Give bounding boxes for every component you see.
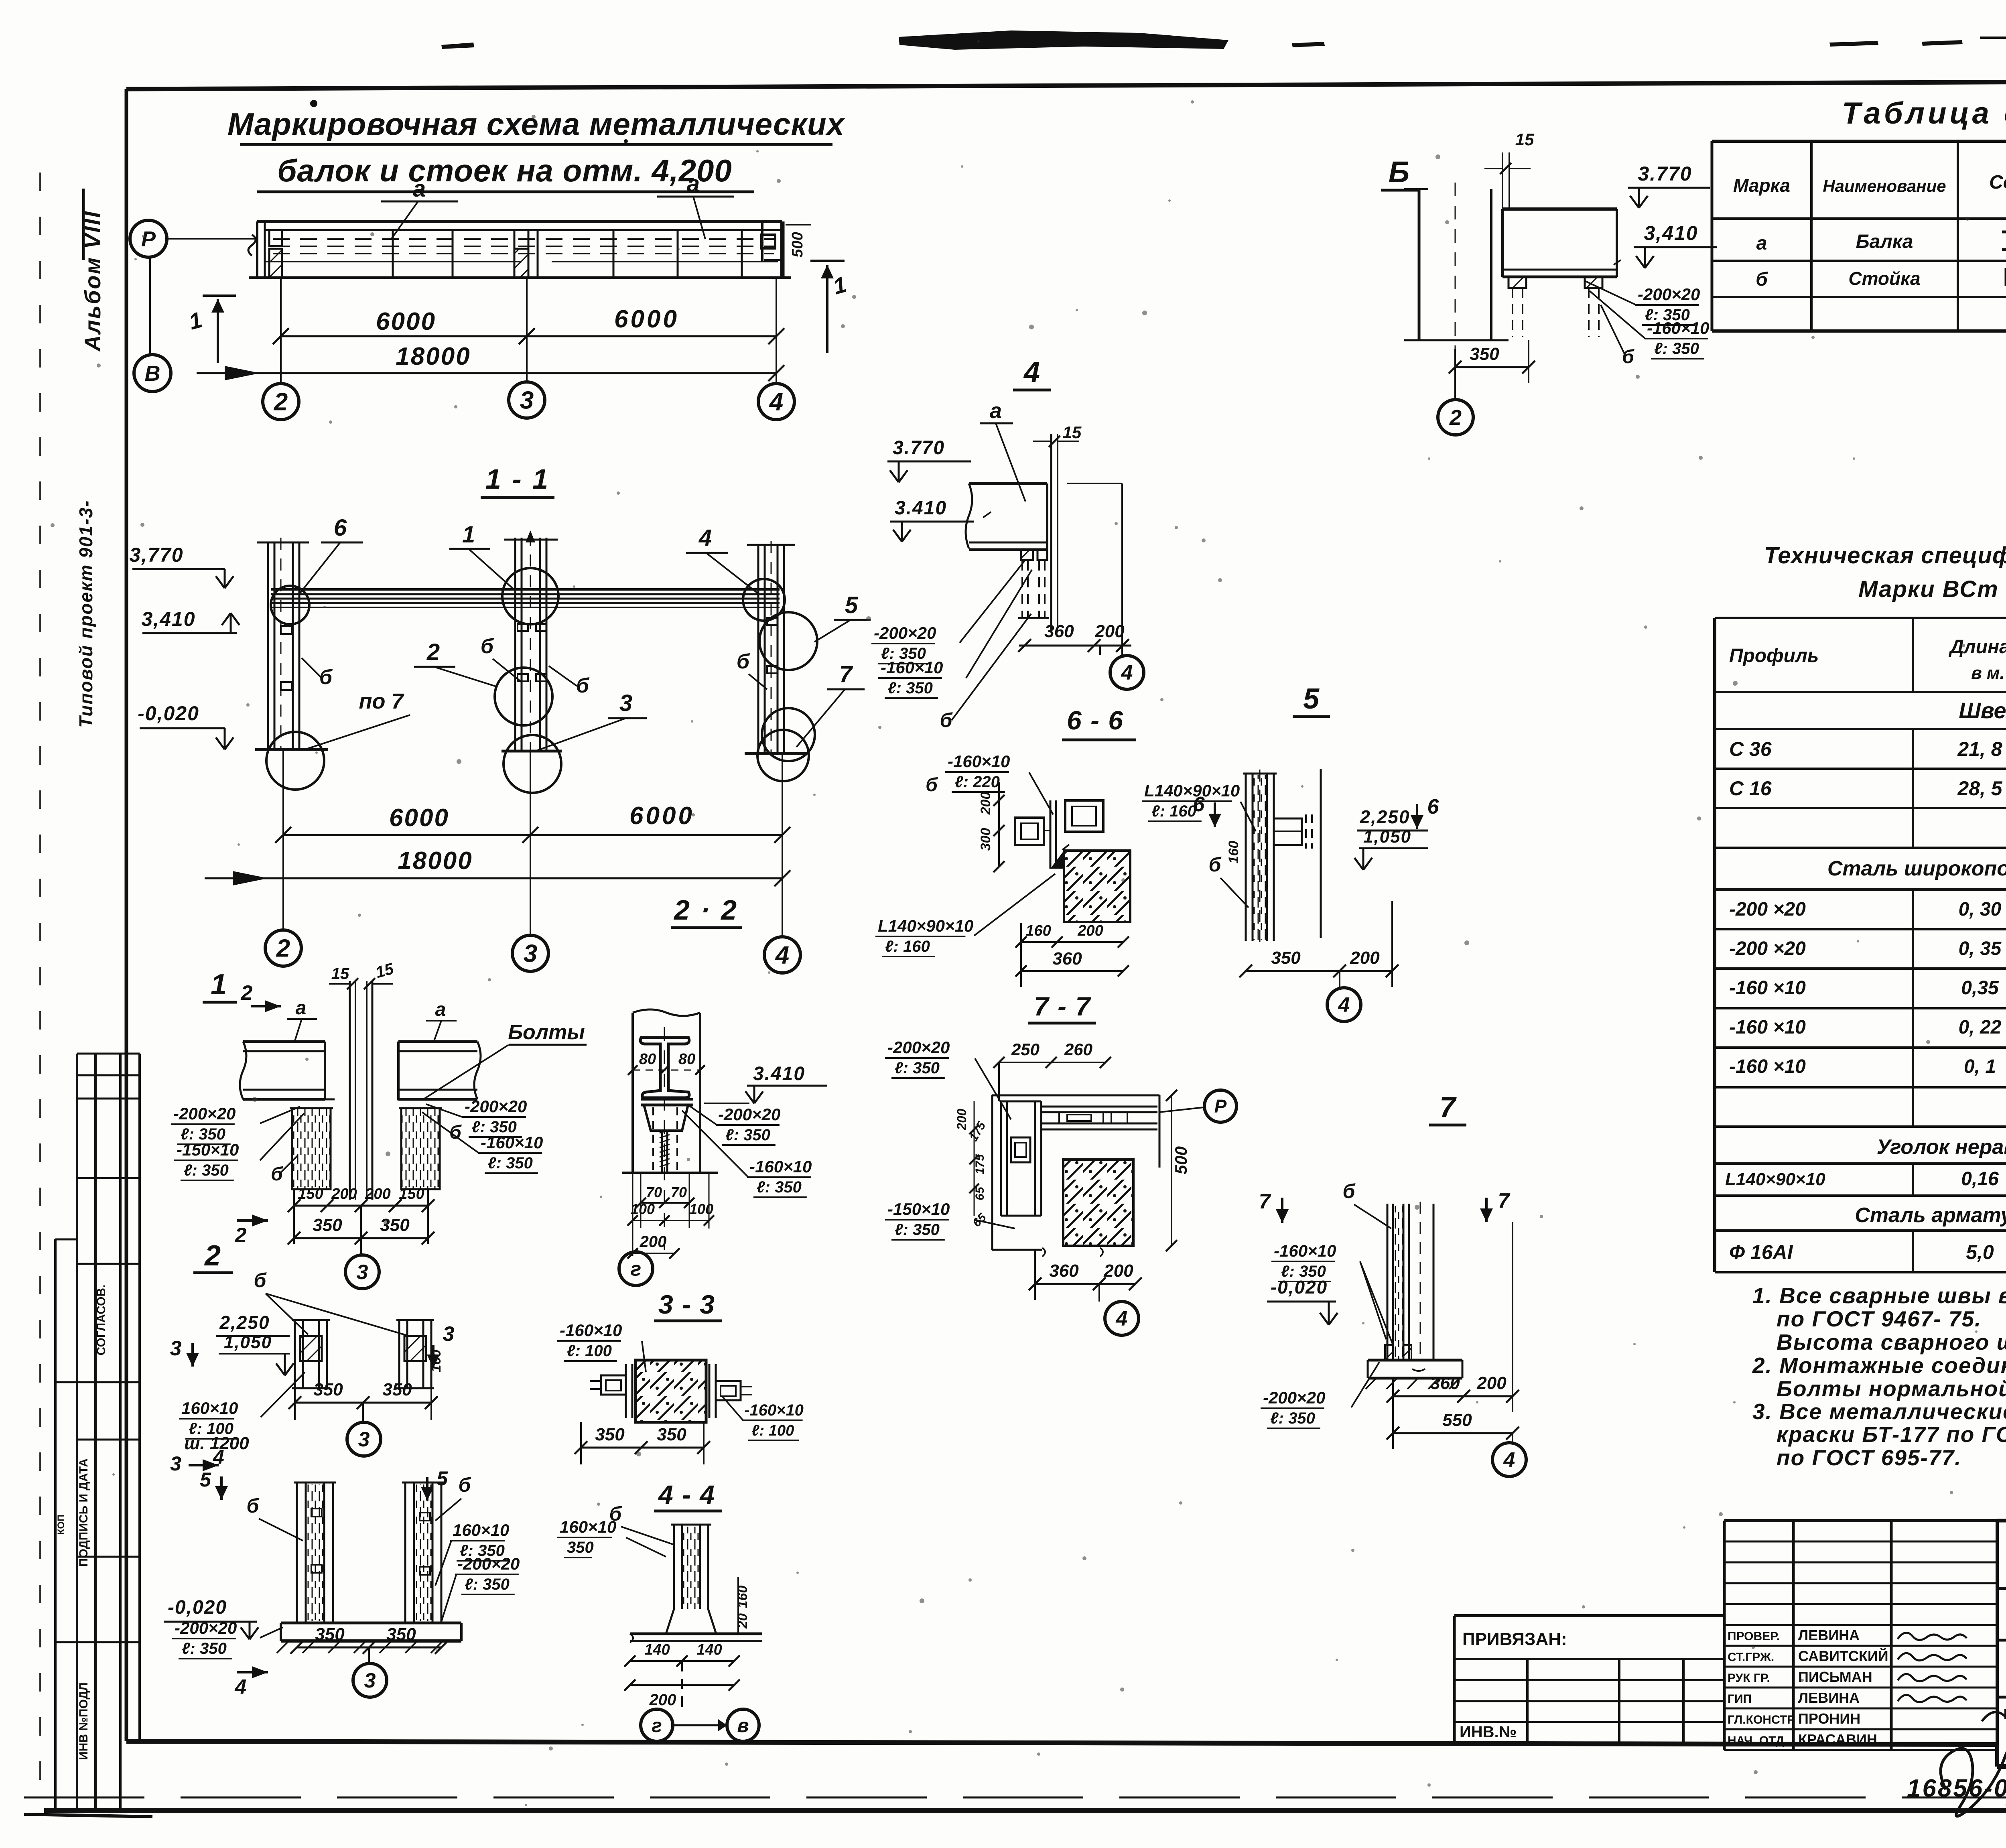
callout circle col4 low	[762, 708, 815, 761]
plan view: beam outline	[257, 220, 782, 223]
detail 5: grid bubble 4	[1339, 971, 1340, 988]
svg-text:ℓ: 350: ℓ: 350	[465, 1576, 510, 1593]
detail 7: base plate	[1368, 1359, 1462, 1362]
svg-text:2,250: 2,250	[1359, 806, 1410, 827]
detail 7-7: dims 250 260 top	[999, 1062, 1105, 1063]
title block: privyazan table	[1454, 1614, 1724, 1617]
svg-text:г: г	[652, 1715, 662, 1736]
plan view: break mark left	[248, 235, 256, 256]
svg-text:ℓ: 160: ℓ: 160	[1151, 802, 1196, 820]
svg-text:15: 15	[1515, 130, 1534, 149]
svg-text:200: 200	[365, 1186, 390, 1202]
svg-text:-160 ×10: -160 ×10	[1729, 1017, 1806, 1038]
detail 6-6: concrete block	[1064, 851, 1130, 922]
svg-text:-200×20: -200×20	[887, 1038, 950, 1057]
dim line 18000 plan	[197, 372, 776, 374]
section 1-1: column on axis 4	[757, 545, 759, 753]
plan view: column 3 hatched	[514, 249, 528, 278]
svg-text:16856-01: 16856-01	[1907, 1775, 2006, 1802]
detail 7-7: callout P	[1204, 1090, 1236, 1122]
svg-text:-200×20: -200×20	[874, 623, 936, 642]
title block: big part frame	[1997, 1519, 2006, 1523]
svg-text:20: 20	[735, 1613, 750, 1629]
svg-text:по ГОСТ 9467- 75.: по ГОСТ 9467- 75.	[1777, 1306, 1982, 1331]
svg-text:-0,020: -0,020	[1271, 1277, 1328, 1298]
title block: signatures	[1898, 1633, 1967, 1640]
svg-text:САВИТСКИЙ: САВИТСКИЙ	[1798, 1647, 1888, 1664]
plan view: column 2 hatched	[269, 249, 282, 278]
dim 6000+6000 section 1-1	[283, 834, 782, 836]
svg-text:-160×10: -160×10	[744, 1401, 804, 1419]
svg-text:1: 1	[211, 969, 227, 1001]
detail 4: gap verticals and 15	[1050, 434, 1052, 632]
svg-text:350: 350	[313, 1215, 342, 1235]
svg-text:160: 160	[428, 1350, 444, 1373]
svg-text:Техническая спецификация стали: Техническая спецификация стали класса С …	[1764, 542, 2006, 569]
svg-text:МАРКИРОВОЧНАЯ СХЕМА МЕТАЛЛИ-: МАРКИРОВОЧНАЯ СХЕМА МЕТАЛЛИ-	[2004, 1706, 2006, 1722]
svg-text:200: 200	[954, 1109, 969, 1131]
svg-text:ℓ: 350: ℓ: 350	[182, 1640, 227, 1657]
svg-text:-200×20: -200×20	[1263, 1388, 1325, 1407]
svg-text:4: 4	[1116, 1307, 1128, 1330]
svg-text:Болты: Болты	[508, 1021, 585, 1044]
detail 7-7: grid bubble 4	[1098, 1284, 1100, 1302]
svg-text:L140×90×10: L140×90×10	[1144, 781, 1240, 800]
callout circle base 4	[757, 730, 809, 781]
title block: names grid	[1723, 1521, 1726, 1750]
section mark 1 right	[826, 265, 828, 353]
svg-text:500: 500	[1172, 1146, 1190, 1174]
detail 1: left beam	[243, 1040, 325, 1043]
svg-text:ПРИВЯЗАН:: ПРИВЯЗАН:	[1462, 1629, 1567, 1649]
svg-text:Наименование: Наименование	[1823, 177, 1946, 195]
svg-text:3: 3	[443, 1322, 455, 1346]
svg-text:3: 3	[170, 1452, 181, 1475]
svg-text:б: б	[1622, 346, 1634, 368]
detail 7-7: channel pair left	[1000, 1101, 1002, 1216]
svg-text:7: 7	[1259, 1190, 1271, 1213]
svg-text:Сталь арматурная стержневая: Сталь арматурная стержневая по ГОСТ 5781…	[1855, 1204, 2006, 1227]
detail 4-4: trapezoid base	[666, 1609, 716, 1634]
svg-text:0,35: 0,35	[1961, 977, 1999, 999]
svg-text:ℓ: 350: ℓ: 350	[1654, 340, 1699, 357]
detail 5: dims 350 200	[1246, 970, 1392, 972]
svg-text:5: 5	[1303, 683, 1320, 715]
svg-text:3: 3	[357, 1261, 368, 1284]
detail 1: left column under beam	[292, 1108, 331, 1189]
callout circle base 2	[266, 732, 324, 790]
svg-text:ℓ: 350: ℓ: 350	[184, 1162, 229, 1179]
svg-text:3,410: 3,410	[1644, 222, 1698, 244]
grid bubble 3 plan	[509, 382, 545, 418]
detail 1: dims 350 350	[294, 1237, 428, 1239]
detail 7: grid bubble 4	[1463, 1396, 1464, 1428]
detail 1: right beam	[398, 1040, 477, 1043]
svg-text:-200×20: -200×20	[457, 1554, 520, 1573]
svg-text:0, 35: 0, 35	[1959, 938, 2002, 959]
svg-text:360: 360	[1044, 621, 1074, 641]
svg-text:ПРОНИН: ПРОНИН	[1798, 1710, 1860, 1727]
plan view: beam dashed lines (beam a)	[273, 238, 774, 240]
spec table frame	[1715, 617, 2006, 619]
svg-text:3.770: 3.770	[1638, 162, 1692, 185]
detail 1: right column under beam	[401, 1108, 440, 1189]
svg-text:6000: 6000	[389, 804, 449, 832]
svg-text:3.410: 3.410	[895, 498, 947, 519]
section 1-1: column on axis 3	[514, 538, 516, 751]
svg-text:4: 4	[213, 1446, 224, 1468]
section mark 1 left	[217, 299, 219, 363]
svg-text:200: 200	[978, 792, 993, 815]
detail 4-4: dims 140 140 200	[630, 1660, 734, 1662]
svg-text:-200×20: -200×20	[1638, 285, 1700, 304]
svg-text:ℓ: 100: ℓ: 100	[567, 1342, 612, 1360]
svg-text:б: б	[449, 1122, 462, 1143]
svg-text:0, 1: 0, 1	[1964, 1056, 1996, 1077]
svg-text:-0,020: -0,020	[168, 1597, 227, 1618]
base detail: base plate	[281, 1622, 461, 1625]
svg-text:в м.: в м.	[1971, 663, 2005, 683]
detail 4: dims 360 200	[1019, 645, 1131, 647]
svg-text:-160×10: -160×10	[749, 1157, 812, 1176]
svg-text:Сталь широкополосная универс: Сталь широкополосная универсальная по ГО…	[1827, 857, 2006, 880]
grid bubble 2 plan	[263, 384, 299, 420]
scanner smudge top	[899, 30, 1228, 50]
svg-text:3: 3	[358, 1428, 370, 1451]
svg-text:Уголок неравнополочный по Г: Уголок неравнополочный по ГОСТ 8510- 72	[1877, 1135, 2006, 1159]
svg-text:250: 250	[1011, 1040, 1040, 1059]
dim 18000 section 1-1	[205, 877, 782, 879]
grid bubble 4 plan	[758, 384, 794, 420]
svg-text:350: 350	[315, 1625, 345, 1644]
svg-text:-0,020: -0,020	[138, 702, 199, 725]
svg-text:2: 2	[1449, 406, 1462, 430]
svg-text:-200 ×20: -200 ×20	[1729, 899, 1806, 920]
svg-text:краски БТ-177 по ГОСТ 5631 -: краски БТ-177 по ГОСТ 5631 - 70* или мас…	[1777, 1422, 2006, 1447]
svg-text:Сечение: Сечение	[1989, 172, 2006, 193]
svg-text:175: 175	[973, 1154, 987, 1174]
svg-text:ℓ: 350: ℓ: 350	[895, 1221, 940, 1239]
svg-text:б: б	[481, 635, 494, 658]
svg-text:-160×10: -160×10	[1647, 319, 1709, 337]
svg-text:350: 350	[382, 1380, 412, 1399]
svg-text:6000: 6000	[629, 802, 694, 830]
svg-text:в: в	[737, 1715, 749, 1736]
detail 6-6: dims 160 200 / 360	[1021, 941, 1123, 943]
svg-text:260: 260	[1064, 1040, 1092, 1059]
detail 1: section mark 2 bottom	[237, 1219, 268, 1222]
svg-text:1 - 1: 1 - 1	[485, 463, 550, 495]
svg-text:160×10: 160×10	[453, 1521, 509, 1539]
svg-text:ℓ: 350: ℓ: 350	[757, 1178, 802, 1196]
svg-text:80: 80	[678, 1051, 695, 1068]
detail 1: axis bubble g	[636, 1251, 637, 1253]
svg-text:7: 7	[1440, 1091, 1457, 1123]
svg-text:ℓ: 160: ℓ: 160	[885, 938, 930, 955]
svg-text:ℓ: 220: ℓ: 220	[955, 773, 1000, 791]
svg-text:18000: 18000	[396, 343, 471, 370]
detail 3-3: right bolt assembly	[709, 1364, 711, 1418]
left margin stamp strip	[76, 1054, 78, 1810]
svg-text:4: 4	[1338, 993, 1350, 1017]
detail 3-3: left bolt assembly	[625, 1364, 627, 1418]
callout circle 5 right	[759, 612, 817, 670]
svg-text:НАЧ. ОТД: НАЧ. ОТД	[1728, 1734, 1784, 1747]
svg-text:-200 ×20: -200 ×20	[1729, 938, 1806, 959]
svg-text:160×10: 160×10	[560, 1517, 616, 1536]
detail 2: columns with splice plates	[294, 1320, 296, 1388]
svg-text:7: 7	[1498, 1189, 1511, 1212]
svg-text:а: а	[687, 171, 700, 197]
svg-text:ПИСЬМАН: ПИСЬМАН	[1798, 1669, 1872, 1685]
svg-text:ИНВ.№: ИНВ.№	[1460, 1723, 1517, 1741]
detail 7-7: outer frame	[991, 1095, 993, 1250]
svg-text:ℓ: 350: ℓ: 350	[888, 679, 933, 697]
detail 4: grid bubble 4	[1099, 646, 1101, 655]
svg-text:ℓ: 350: ℓ: 350	[1270, 1409, 1315, 1427]
svg-text:В: В	[145, 361, 160, 386]
plan view: axis B bubble	[134, 355, 171, 392]
svg-text:3. Все металлические конструк: 3. Все металлические конструкции окрасит…	[1752, 1399, 2006, 1424]
detail 7-7: concrete square	[1063, 1160, 1133, 1246]
svg-text:350: 350	[313, 1380, 343, 1399]
base detail: section mark 4 bottom	[237, 1671, 268, 1673]
svg-text:Швеллеры по ГОСТ 8240-72: Швеллеры по ГОСТ 8240-72	[1959, 698, 2006, 723]
svg-text:ЛЕВИНА: ЛЕВИНА	[1798, 1690, 1860, 1706]
svg-text:550: 550	[1442, 1410, 1472, 1430]
detail 1: I-section part: column faces	[631, 1013, 634, 1173]
svg-text:С 36: С 36	[1729, 738, 1772, 760]
detail 7: dims 360 200	[1393, 1395, 1513, 1397]
svg-text:350: 350	[567, 1539, 594, 1556]
svg-text:160: 160	[1025, 922, 1051, 939]
callout circle col3 top	[502, 568, 558, 624]
svg-text:Болты нормальной точности М: Болты нормальной точности М16.	[1777, 1376, 2006, 1401]
svg-text:1,050: 1,050	[1363, 827, 1411, 847]
callout circle base 3	[504, 735, 561, 793]
svg-text:а: а	[413, 176, 426, 202]
svg-text:ПОДПИСЬ И ДАТА: ПОДПИСЬ И ДАТА	[77, 1458, 90, 1567]
plan view: right end bracket	[761, 221, 763, 261]
svg-text:ℓ: 350: ℓ: 350	[895, 1059, 940, 1077]
detail 7: column	[1387, 1204, 1389, 1360]
svg-text:200: 200	[640, 1233, 667, 1251]
svg-text:СОГЛАСОВ.: СОГЛАСОВ.	[95, 1285, 108, 1356]
detail 1: seat plate	[641, 1098, 693, 1101]
detail B: dim 350	[1455, 366, 1529, 368]
svg-text:СТ.ГРЖ.: СТ.ГРЖ.	[1728, 1651, 1774, 1664]
svg-text:160: 160	[1226, 841, 1241, 864]
plan view: segment ticks	[392, 230, 394, 278]
detail B: grid bubble 2	[1454, 349, 1456, 400]
svg-text:0, 22: 0, 22	[1959, 1017, 2002, 1038]
svg-text:РУК ГР.: РУК ГР.	[1728, 1671, 1770, 1685]
svg-text:-200×20: -200×20	[173, 1104, 236, 1123]
svg-text:Высота сварного шва h= 6мм: Высота сварного шва h= 6мм.	[1777, 1330, 2006, 1355]
svg-text:3,410: 3,410	[141, 608, 195, 630]
detail B: beam box	[1502, 207, 1617, 211]
svg-text:4: 4	[1503, 1448, 1515, 1472]
svg-text:-160×10: -160×10	[481, 1133, 543, 1152]
svg-text:б: б	[926, 774, 938, 796]
svg-text:350: 350	[1271, 948, 1301, 968]
svg-text:3.770: 3.770	[893, 437, 945, 459]
svg-text:-160 ×10: -160 ×10	[1729, 977, 1806, 999]
svg-text:4: 4	[775, 942, 789, 969]
svg-text:5: 5	[845, 592, 858, 618]
svg-text:300: 300	[978, 828, 993, 851]
detail 7-7: top band beam	[1041, 1106, 1157, 1108]
svg-text:по 7: по 7	[359, 689, 404, 713]
detail 4: right dim verticals	[1121, 483, 1123, 658]
grid bubble 3 section 1-1	[512, 935, 548, 971]
svg-text:350: 350	[386, 1625, 416, 1644]
svg-text:3: 3	[619, 690, 632, 716]
svg-text:3: 3	[364, 1669, 376, 1692]
svg-text:200: 200	[1103, 1261, 1133, 1281]
svg-text:200: 200	[331, 1186, 357, 1202]
base detail: ground hatch	[277, 1641, 289, 1653]
svg-text:100: 100	[631, 1201, 655, 1217]
svg-text:2. Монтажные соединения - бол: 2. Монтажные соединения - болтовые.	[1752, 1353, 2006, 1378]
section 1-1: column on axis 2	[267, 542, 269, 749]
svg-text:2: 2	[274, 388, 288, 416]
svg-text:ИНВ №ПОДЛ: ИНВ №ПОДЛ	[77, 1682, 90, 1760]
svg-text:2: 2	[241, 981, 253, 1005]
svg-text:Длина: Длина	[1948, 636, 2006, 658]
detail 1: grid bubble 3	[360, 1206, 362, 1255]
svg-text:б: б	[271, 1164, 283, 1185]
svg-text:21, 8: 21, 8	[1957, 738, 2002, 760]
detail 1: gap verticals 15	[349, 981, 351, 1200]
svg-text:150: 150	[399, 1186, 424, 1202]
svg-text:160×10: 160×10	[181, 1399, 238, 1417]
svg-text:-200×20: -200×20	[175, 1619, 237, 1637]
svg-text:Марки ВСт 3 кп2, ГОСТ 380-71: Марки ВСт 3 кп2, ГОСТ 380-71 *	[1858, 576, 2006, 602]
svg-text:3: 3	[520, 387, 534, 414]
svg-text:Маркировочная схема металличес: Маркировочная схема металлических	[227, 106, 846, 142]
plan view: axis P bubble	[130, 220, 167, 257]
svg-text:балок и стоек на отм. 4,200: балок и стоек на отм. 4,200	[277, 153, 732, 188]
svg-text:3,770: 3,770	[129, 544, 183, 566]
svg-text:2 · 2: 2 · 2	[673, 894, 738, 926]
detail 7: dim 550	[1393, 1432, 1513, 1434]
svg-text:Стойка: Стойка	[1848, 268, 1920, 289]
svg-text:L140×90×10: L140×90×10	[1725, 1170, 1825, 1189]
svg-text:С 16: С 16	[1729, 777, 1772, 800]
svg-text:Р: Р	[1214, 1096, 1227, 1117]
detail 3-3: concrete block	[636, 1360, 706, 1422]
callout circle col4 top	[743, 579, 785, 621]
svg-text:1. Все сварные швы выполняются: 1. Все сварные швы выполняются электрода…	[1752, 1283, 2006, 1308]
svg-text:-160×10: -160×10	[560, 1321, 622, 1340]
svg-text:б: б	[254, 1269, 267, 1292]
svg-text:-150×10: -150×10	[177, 1140, 239, 1159]
svg-text:80: 80	[639, 1051, 656, 1068]
svg-text:3: 3	[170, 1337, 182, 1360]
svg-text:-200×20: -200×20	[465, 1097, 527, 1116]
svg-text:Б: Б	[1389, 155, 1409, 189]
svg-text:4: 4	[1121, 661, 1133, 684]
svg-text:140: 140	[696, 1641, 722, 1658]
svg-text:4: 4	[769, 388, 783, 416]
svg-text:-160×10: -160×10	[881, 658, 943, 677]
sections table frame	[1712, 140, 2006, 143]
svg-text:200: 200	[1077, 922, 1103, 939]
svg-text:ЛЕВИНА: ЛЕВИНА	[1798, 1627, 1860, 1643]
svg-text:15: 15	[1063, 423, 1082, 442]
detail 6-6: channel shapes	[1065, 800, 1103, 832]
detail 2: dims 350 350	[295, 1402, 431, 1404]
svg-text:Профиль: Профиль	[1729, 645, 1819, 666]
svg-text:Р: Р	[141, 227, 156, 251]
svg-text:ГИП: ГИП	[1728, 1692, 1752, 1706]
svg-text:б: б	[1209, 853, 1222, 876]
svg-text:350: 350	[1470, 344, 1499, 364]
callout circle col2 top	[271, 586, 309, 624]
dim line 6000+6000 plan	[281, 335, 776, 337]
svg-text:160: 160	[735, 1586, 750, 1608]
svg-text:-160×10: -160×10	[948, 752, 1010, 771]
svg-text:Балка: Балка	[1856, 231, 1913, 252]
svg-text:Типовой проект 901-3-: Типовой проект 901-3-	[75, 500, 96, 728]
svg-text:350: 350	[595, 1425, 625, 1444]
svg-text:350: 350	[380, 1215, 410, 1235]
svg-text:200: 200	[1476, 1373, 1507, 1393]
svg-text:360: 360	[1430, 1373, 1460, 1393]
base detail: dims 350 350	[297, 1647, 441, 1649]
svg-text:6: 6	[1427, 795, 1440, 818]
svg-text:4: 4	[698, 525, 712, 551]
svg-text:4: 4	[1023, 356, 1040, 388]
base detail: columns	[296, 1482, 298, 1623]
svg-text:15: 15	[331, 965, 349, 983]
detail 1: seat trapezoid	[644, 1105, 688, 1131]
svg-text:Ф 16АІ: Ф 16АІ	[1729, 1241, 1793, 1263]
svg-text:г: г	[631, 1258, 642, 1280]
section 1-1: beam band	[271, 588, 780, 591]
svg-text:4: 4	[235, 1675, 247, 1699]
svg-text:0, 30: 0, 30	[1959, 899, 2002, 920]
svg-text:L140×90×10: L140×90×10	[878, 916, 973, 935]
svg-text:б: б	[940, 709, 953, 731]
svg-text:-160 ×10: -160 ×10	[1729, 1056, 1806, 1077]
svg-text:70: 70	[646, 1184, 662, 1200]
detail 1: dims 150 200 200 150	[294, 1205, 428, 1207]
svg-text:5,0: 5,0	[1966, 1241, 1994, 1263]
svg-text:5: 5	[437, 1467, 448, 1490]
svg-text:Таблица сечений: Таблица сечений	[1842, 96, 2006, 130]
detail 3-3: dims 350 350	[581, 1447, 704, 1449]
svg-text:3.410: 3.410	[753, 1063, 805, 1084]
svg-text:2,250: 2,250	[219, 1312, 270, 1333]
svg-text:-160×10: -160×10	[1274, 1241, 1336, 1260]
svg-text:140: 140	[644, 1641, 670, 1658]
svg-text:б: б	[737, 650, 750, 673]
detail 4-4: column	[673, 1525, 675, 1609]
base detail: grid bubble 3	[368, 1647, 370, 1663]
detail 4: seat and column below	[1021, 550, 1033, 560]
svg-text:а: а	[990, 399, 1002, 423]
sheet outer edge lines	[39, 173, 41, 1797]
svg-text:100: 100	[689, 1201, 713, 1217]
detail 2: grid bubble 3	[362, 1403, 364, 1422]
svg-text:б: б	[1756, 269, 1768, 290]
svg-text:6: 6	[1193, 793, 1205, 816]
svg-text:200: 200	[1094, 621, 1125, 641]
svg-text:18000: 18000	[398, 847, 473, 875]
svg-text:а: а	[435, 999, 446, 1020]
